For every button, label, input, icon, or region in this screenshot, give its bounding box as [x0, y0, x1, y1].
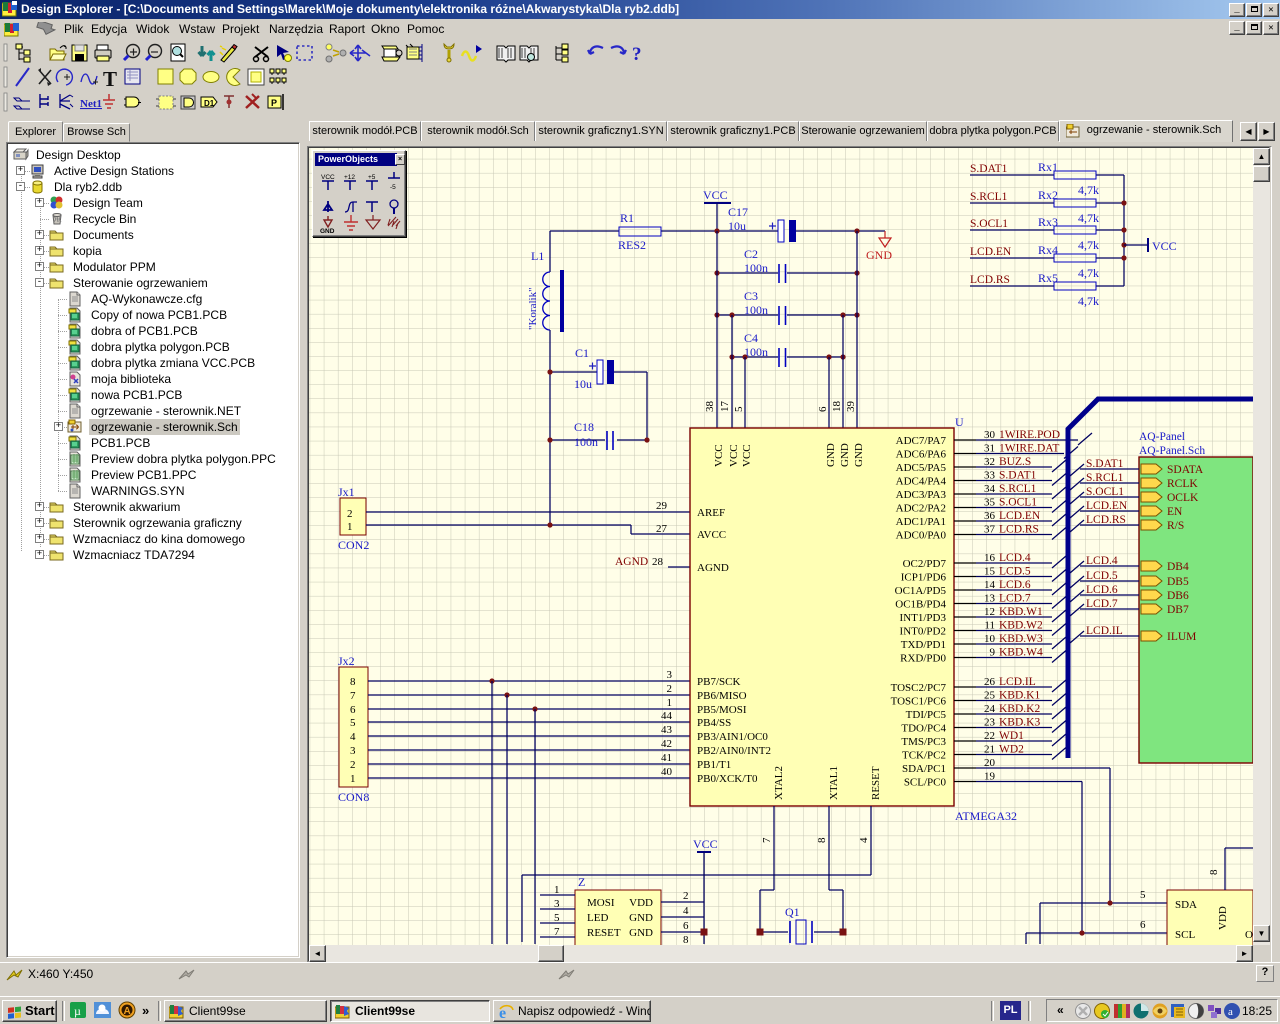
wire GND pin6	[828, 357, 830, 428]
svg-text:S.RCL1: S.RCL1	[999, 483, 1037, 495]
svg-text:OC2/PD7: OC2/PD7	[903, 558, 947, 570]
resistor Rx3	[970, 215, 1124, 252]
wire XTAL1	[829, 806, 843, 932]
svg-text:ADC4/PA4: ADC4/PA4	[896, 476, 947, 488]
svg-text:8: 8	[816, 837, 828, 843]
svg-text:4: 4	[350, 731, 356, 743]
junction SDA	[1107, 900, 1112, 905]
wire net KBD.W1	[976, 616, 1052, 618]
svg-text:S.OCL1: S.OCL1	[999, 497, 1037, 509]
wire net LCD.7 to sheet	[1070, 604, 1139, 616]
svg-text:RXD/PD0: RXD/PD0	[900, 653, 946, 665]
svg-text:40: 40	[661, 766, 673, 778]
svg-text:24: 24	[984, 703, 996, 715]
svg-text:2: 2	[667, 683, 673, 695]
svg-text:31: 31	[984, 443, 995, 455]
svg-text:3: 3	[350, 745, 356, 757]
svg-text:R/S: R/S	[1167, 520, 1184, 532]
svg-text:LCD.EN: LCD.EN	[999, 510, 1041, 522]
wire net S.RCL1	[976, 493, 1052, 495]
svg-text:AVCC: AVCC	[697, 529, 726, 541]
svg-text:5: 5	[554, 912, 560, 924]
svg-text:1WIRE.POD: 1WIRE.POD	[999, 429, 1060, 441]
menu bar	[0, 19, 1280, 38]
sheet entry RCLK	[1141, 478, 1162, 488]
svg-text:13: 13	[984, 593, 996, 605]
svg-text:30: 30	[984, 429, 996, 441]
svg-text:VCC: VCC	[703, 188, 728, 202]
junction Jx2 pin7	[504, 692, 509, 697]
svg-text:LCD.IL: LCD.IL	[999, 676, 1036, 688]
sheet entry OCLK	[1141, 492, 1162, 502]
sheet entry R/S	[1141, 520, 1162, 530]
wire net KBD.K2	[976, 713, 1052, 715]
junction C18 right	[644, 437, 649, 442]
svg-text:SDA/PC1: SDA/PC1	[902, 763, 946, 775]
svg-text:27: 27	[656, 523, 668, 535]
svg-text:TMS/PC3: TMS/PC3	[901, 736, 946, 748]
Z right stubs	[661, 890, 704, 946]
power VCC right	[1124, 238, 1177, 253]
svg-text:34: 34	[984, 483, 996, 495]
junctions C3	[714, 312, 859, 317]
svg-text:AQ-Panel.Sch: AQ-Panel.Sch	[1139, 445, 1205, 457]
svg-text:4,7k: 4,7k	[1078, 183, 1099, 197]
wire VCC pin38	[716, 231, 718, 428]
IC right bottom component	[1167, 890, 1253, 948]
svg-text:10: 10	[984, 633, 996, 645]
svg-text:KBD.W3: KBD.W3	[999, 633, 1043, 645]
svg-text:»: »	[142, 1003, 149, 1018]
wire GND pin18	[842, 315, 844, 428]
wire net LCD.5	[976, 576, 1052, 578]
svg-text:Q1: Q1	[785, 905, 800, 919]
svg-text:100n: 100n	[744, 345, 768, 359]
svg-text:C4: C4	[744, 331, 758, 345]
svg-text:8: 8	[350, 676, 356, 688]
wire net LCD.6 to sheet	[1070, 590, 1139, 602]
svg-text:1: 1	[350, 773, 356, 785]
svg-text:TOSC2/PC7: TOSC2/PC7	[891, 682, 947, 694]
capacitor C17	[728, 205, 796, 242]
doc area	[302, 118, 1280, 962]
connector Jx1 CON2	[338, 485, 369, 552]
svg-text:38: 38	[704, 401, 716, 413]
svg-text:7: 7	[761, 837, 773, 843]
svg-text:LCD.IL: LCD.IL	[1086, 625, 1123, 637]
wire SDA net	[1040, 903, 1167, 944]
svg-text:INT0/PD2: INT0/PD2	[900, 626, 946, 638]
toolbars	[0, 38, 1280, 118]
svg-text:4,7k: 4,7k	[1078, 211, 1099, 225]
svg-text:A: A	[124, 1006, 131, 1017]
left panel	[8, 121, 63, 142]
chip bottom pin names rotated	[773, 766, 882, 800]
svg-text:Rx2: Rx2	[1038, 188, 1058, 202]
junction top rail right	[854, 228, 859, 233]
svg-text:LCD.EN: LCD.EN	[1086, 500, 1128, 512]
svg-text:4: 4	[858, 837, 870, 843]
wire C1 to C18	[646, 372, 648, 440]
svg-text:D1: D1	[204, 99, 215, 108]
wire SCL/PC0	[976, 782, 1082, 934]
svg-text:OC1A/PD5: OC1A/PD5	[895, 585, 947, 597]
svg-text:ICP1/PD6: ICP1/PD6	[901, 572, 947, 584]
svg-text:VDD: VDD	[1217, 906, 1229, 930]
svg-text:1: 1	[667, 697, 673, 709]
junction top rail at VCC	[714, 228, 719, 233]
svg-text:C17: C17	[728, 205, 748, 219]
sheet entry EN	[1141, 506, 1162, 516]
wire net LCD.IL	[976, 686, 1052, 688]
junction Jx2 pin6	[532, 706, 537, 711]
junctions C4	[729, 354, 845, 359]
svg-text:ADC3/PA3: ADC3/PA3	[896, 489, 947, 501]
wire net KBD.K3	[976, 727, 1052, 729]
svg-text:PB1/T1: PB1/T1	[697, 759, 731, 771]
svg-text:Rx5: Rx5	[1038, 271, 1058, 285]
svg-text:4,7k: 4,7k	[1078, 294, 1099, 308]
svg-text:+12: +12	[344, 174, 355, 181]
capacitor C18	[550, 420, 647, 450]
svg-text:TDO/PC4: TDO/PC4	[901, 723, 946, 735]
svg-text:S.DAT1: S.DAT1	[999, 470, 1037, 482]
svg-text:35: 35	[984, 497, 996, 509]
svg-text:GND: GND	[825, 443, 837, 467]
svg-text:C3: C3	[744, 289, 758, 303]
svg-text:2: 2	[347, 508, 353, 520]
svg-text:1: 1	[554, 884, 560, 896]
svg-text:?: ?	[632, 44, 642, 65]
svg-text:100n: 100n	[744, 303, 768, 317]
IC U ATMEGA32 body	[690, 428, 954, 806]
svg-text:KBD.W4: KBD.W4	[999, 647, 1043, 659]
svg-text:ATMEGA32: ATMEGA32	[955, 809, 1017, 823]
svg-text:"Koralik": "Koralik"	[527, 287, 539, 330]
svg-text:KBD.K2: KBD.K2	[999, 703, 1040, 715]
chip left pin names	[697, 507, 771, 785]
wire Jx1 pin2 to AREF	[366, 511, 690, 513]
svg-text:ADC0/PA0: ADC0/PA0	[896, 530, 947, 542]
status bar	[0, 962, 1280, 996]
svg-text:7: 7	[554, 926, 560, 938]
wire net KBD.W2	[976, 630, 1052, 632]
svg-text:S.RCL1: S.RCL1	[1086, 472, 1124, 484]
resistor Rx5	[970, 271, 1124, 308]
svg-text:VCC: VCC	[728, 444, 740, 467]
svg-text:S.DAT1: S.DAT1	[970, 163, 1008, 175]
sheet symbol AQ-Panel	[1139, 431, 1253, 763]
wire pin8 right component	[1225, 848, 1253, 890]
svg-text:ADC1/PA1: ADC1/PA1	[896, 516, 946, 528]
svg-text:LED: LED	[587, 912, 608, 924]
svg-text:2: 2	[350, 759, 356, 771]
svg-text:21: 21	[984, 744, 995, 756]
svg-text:VCC: VCC	[1152, 239, 1177, 253]
svg-text:GND: GND	[866, 248, 892, 262]
sheet entry ILUM	[1141, 631, 1162, 641]
svg-text:19: 19	[984, 771, 996, 783]
capacitor C3	[717, 289, 857, 325]
svg-text:AGND: AGND	[697, 562, 729, 574]
junction Q1 left	[757, 929, 764, 936]
svg-text:CON8: CON8	[338, 790, 369, 804]
wire net S.DAT1	[976, 480, 1052, 482]
capacitor C4	[732, 331, 843, 367]
svg-text:28: 28	[652, 556, 664, 568]
svg-text:S.DAT1: S.DAT1	[1086, 458, 1124, 470]
svg-text:5: 5	[350, 717, 356, 729]
svg-text:22: 22	[984, 730, 995, 742]
svg-text:LCD.4: LCD.4	[1086, 555, 1118, 567]
svg-text:ILUM: ILUM	[1167, 631, 1196, 643]
Z left stubs	[540, 884, 575, 938]
connector Z	[575, 875, 661, 948]
sheet entry DB7	[1141, 604, 1162, 614]
svg-text:PB5/MOSI: PB5/MOSI	[697, 704, 747, 716]
wire net S.RCL1 to sheet	[1070, 478, 1139, 490]
capacitor C2	[717, 247, 857, 283]
svg-text:3: 3	[554, 898, 560, 910]
svg-text:PB6/MISO: PB6/MISO	[697, 690, 747, 702]
wire SCL net	[1026, 933, 1167, 944]
svg-text:4,7k: 4,7k	[1078, 238, 1099, 252]
svg-text:18: 18	[831, 401, 843, 413]
svg-text:GND: GND	[629, 927, 653, 939]
svg-text:11: 11	[984, 620, 995, 632]
svg-text:U: U	[955, 415, 964, 429]
svg-text:-5: -5	[390, 184, 396, 191]
svg-text:GND: GND	[629, 912, 653, 924]
svg-text:DB7: DB7	[1167, 604, 1189, 616]
connector Jx2 CON8	[338, 654, 369, 804]
svg-text:Rx3: Rx3	[1038, 215, 1058, 229]
sheet entry DB6	[1141, 590, 1162, 600]
svg-text:KBD.W2: KBD.W2	[999, 620, 1043, 632]
svg-text:S.RCL1: S.RCL1	[970, 191, 1008, 203]
svg-text:VCC: VCC	[713, 444, 725, 467]
svg-text:LCD.RS: LCD.RS	[1086, 514, 1126, 526]
svg-text:OCLK: OCLK	[1167, 492, 1199, 504]
svg-text:RCLK: RCLK	[1167, 478, 1198, 490]
svg-text:DB6: DB6	[1167, 590, 1189, 602]
svg-text:C18: C18	[574, 420, 594, 434]
svg-text:RES2: RES2	[618, 238, 646, 252]
wire net LCD.4 to sheet	[1070, 561, 1139, 573]
ground GND top	[866, 231, 892, 262]
svg-text:4,7k: 4,7k	[1078, 266, 1099, 280]
wire SDA/PC1	[976, 768, 1110, 903]
svg-text:T: T	[103, 67, 117, 91]
svg-text:ADC7/PA7: ADC7/PA7	[896, 435, 947, 447]
svg-text:10u: 10u	[728, 219, 746, 233]
svg-text:PB4/SS: PB4/SS	[697, 717, 731, 729]
junction SCL	[1079, 930, 1084, 935]
junction Jx2 pin8	[489, 678, 494, 683]
wire MISO down	[506, 695, 508, 944]
svg-text:Rx4: Rx4	[1038, 243, 1058, 257]
sheet entry DB5	[1141, 576, 1162, 586]
svg-text:LCD.RS: LCD.RS	[970, 274, 1010, 286]
svg-text:R1: R1	[620, 211, 634, 225]
svg-text:Net1: Net1	[80, 98, 102, 110]
svg-text:1WIRE.DAT: 1WIRE.DAT	[999, 443, 1059, 455]
wire net LCD.6	[976, 589, 1052, 591]
svg-text:23: 23	[984, 717, 996, 729]
svg-text:XTAL1: XTAL1	[828, 766, 840, 800]
wire net KBD.W4	[976, 657, 1052, 659]
wire MOSI down	[491, 681, 493, 944]
svg-text:Jx2: Jx2	[338, 654, 355, 668]
sheet entry SDATA	[1141, 464, 1162, 474]
svg-text:VCC: VCC	[741, 444, 753, 467]
wire net S.DAT1 to sheet	[1070, 464, 1139, 476]
svg-text:LCD.5: LCD.5	[1086, 570, 1118, 582]
wire net LCD.5 to sheet	[1070, 576, 1139, 588]
svg-text:Jx1: Jx1	[338, 485, 355, 499]
wire SCK down	[534, 709, 536, 944]
svg-text:PB7/SCK: PB7/SCK	[697, 676, 740, 688]
wire net LCD.7	[976, 603, 1052, 605]
svg-text:VDD: VDD	[629, 897, 653, 909]
inductor L1	[527, 231, 564, 332]
wire net S.OCL1 to sheet	[1070, 492, 1139, 504]
title bar	[0, 0, 1280, 19]
wire net 1WIRE.DAT	[976, 453, 1064, 455]
svg-text:TOSC1/PC6: TOSC1/PC6	[891, 696, 947, 708]
svg-text:PB2/AIN0/INT2: PB2/AIN0/INT2	[697, 745, 771, 757]
taskbar	[0, 996, 1280, 1024]
svg-text:5: 5	[733, 406, 745, 412]
svg-text:37: 37	[984, 524, 996, 536]
capacitor C1	[550, 346, 647, 391]
svg-text:WD2: WD2	[999, 744, 1024, 756]
wire net KBD.W3	[976, 643, 1052, 645]
resistor Rx1	[970, 160, 1124, 197]
svg-text:36: 36	[984, 510, 996, 522]
resistor Rx2	[970, 188, 1124, 225]
junction C2 right	[854, 270, 859, 275]
svg-text:PB3/AIN1/OC0: PB3/AIN1/OC0	[697, 731, 768, 743]
svg-text:SCL/PC0: SCL/PC0	[904, 777, 947, 789]
svg-text:TXD/PD1: TXD/PD1	[901, 639, 946, 651]
svg-text:5: 5	[1140, 889, 1146, 901]
svg-text:GND: GND	[839, 443, 851, 467]
svg-text:VCC: VCC	[321, 174, 335, 181]
resistor Rx4	[970, 243, 1124, 280]
svg-text:7: 7	[350, 690, 356, 702]
svg-text:9: 9	[990, 647, 996, 659]
crystal Q1	[760, 905, 843, 944]
junction Z GND	[701, 929, 708, 936]
wire main top rail	[550, 230, 885, 232]
svg-text:KBD.K1: KBD.K1	[999, 690, 1040, 702]
wire net 1WIRE.POD	[976, 439, 1078, 441]
svg-text:AQ-Panel: AQ-Panel	[1139, 431, 1185, 443]
svg-text:MOSI: MOSI	[587, 897, 615, 909]
chip top pin names VCC GND rotated	[713, 443, 865, 467]
svg-text:S.OCL1: S.OCL1	[1086, 486, 1124, 498]
wire RESET	[522, 806, 871, 942]
svg-text:C2: C2	[744, 247, 758, 261]
svg-text:LCD.6: LCD.6	[999, 579, 1031, 591]
svg-text:TDI/PC5: TDI/PC5	[906, 709, 947, 721]
svg-text:WD1: WD1	[999, 730, 1024, 742]
svg-text:CON2: CON2	[338, 538, 369, 552]
svg-text:AREF: AREF	[697, 507, 725, 519]
wire Jx1 pin1 to AVCC	[366, 525, 690, 534]
svg-text:1: 1	[347, 521, 353, 533]
svg-text:GND: GND	[853, 443, 865, 467]
svg-text:44: 44	[661, 710, 673, 722]
svg-text:EN: EN	[1167, 506, 1183, 518]
svg-text:KBD.W1: KBD.W1	[999, 606, 1043, 618]
svg-text:6: 6	[1140, 919, 1146, 931]
svg-text:AGND: AGND	[615, 556, 648, 568]
svg-text:LCD.EN: LCD.EN	[970, 246, 1012, 258]
svg-text:10u: 10u	[574, 377, 592, 391]
power VCC top	[703, 188, 731, 231]
wire net BUZ.S	[976, 466, 1052, 468]
svg-text:32: 32	[984, 456, 995, 468]
svg-text:S.OCL1: S.OCL1	[970, 218, 1008, 230]
svg-text:C1: C1	[575, 346, 589, 360]
svg-text:a: a	[1228, 1006, 1233, 1018]
svg-text:XTAL2: XTAL2	[773, 766, 785, 800]
power VCC bottom	[693, 837, 718, 944]
svg-text:39: 39	[845, 401, 857, 413]
svg-text:17: 17	[719, 401, 731, 413]
svg-text:RESET: RESET	[870, 766, 882, 800]
svg-text:ADC6/PA6: ADC6/PA6	[896, 449, 947, 461]
svg-text:16: 16	[984, 552, 996, 564]
chip right pin names	[891, 435, 947, 789]
svg-text:43: 43	[661, 724, 673, 736]
wire Rx common	[1123, 175, 1125, 286]
svg-text:BUZ.S: BUZ.S	[999, 456, 1031, 468]
svg-text:33: 33	[984, 470, 996, 482]
wires Jx2 to PB pins	[368, 681, 690, 778]
svg-text:INT1/PD3: INT1/PD3	[900, 612, 947, 624]
svg-text:6: 6	[683, 920, 689, 932]
svg-text:LCD.6: LCD.6	[1086, 584, 1118, 596]
svg-text:8: 8	[683, 934, 689, 945]
bus main	[1068, 399, 1253, 758]
svg-text:P: P	[271, 98, 277, 108]
chip right pin stubs	[954, 440, 976, 782]
svg-text:42: 42	[661, 738, 672, 750]
svg-text:DB4: DB4	[1167, 561, 1189, 573]
svg-text:Z: Z	[578, 875, 585, 889]
svg-text:KBD.K3: KBD.K3	[999, 717, 1040, 729]
svg-text:25: 25	[984, 690, 996, 702]
svg-text:O: O	[1245, 929, 1253, 941]
sheet entry DB4	[1141, 561, 1162, 571]
svg-text:ADC5/PA5: ADC5/PA5	[896, 462, 947, 474]
svg-text:RESET: RESET	[587, 927, 621, 939]
resistor R1	[618, 211, 661, 252]
wire VCC pin17	[731, 315, 733, 428]
wire net LCD.RS to sheet	[1070, 520, 1139, 532]
svg-text:SDATA: SDATA	[1167, 464, 1204, 476]
svg-text:26: 26	[984, 676, 996, 688]
wire net LCD.RS	[976, 534, 1052, 536]
wire GND pin39	[856, 231, 858, 428]
junction C2 left	[714, 270, 719, 275]
wire net KBD.K1	[976, 700, 1052, 702]
wire VCC pin5	[744, 357, 746, 428]
svg-text:15: 15	[984, 566, 996, 578]
